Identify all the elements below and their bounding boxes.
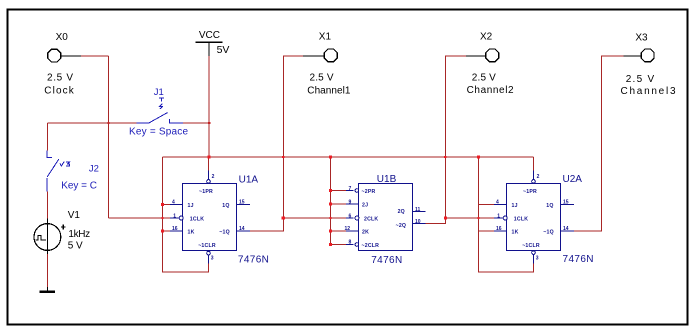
junction clock/J-rail <box>107 122 109 124</box>
svg-text:1CLK: 1CLK <box>514 216 528 222</box>
svg-text:X0: X0 <box>56 32 69 43</box>
wire V1 to ground <box>46 254 48 287</box>
svg-text:2.5 V: 2.5 V <box>310 73 334 84</box>
U2A CLK bubble pin 1 <box>503 216 507 220</box>
U1B CLK bubble <box>355 216 359 220</box>
wire U2A J branch <box>478 204 494 206</box>
svg-text:~1CLR: ~1CLR <box>522 243 540 249</box>
svg-text:1J: 1J <box>188 203 194 209</box>
U1B pin 6 stub <box>346 217 354 219</box>
svg-text:2: 2 <box>212 174 215 180</box>
svg-text:12: 12 <box>345 226 351 232</box>
svg-text:1kHz: 1kHz <box>68 229 90 240</box>
svg-text:1: 1 <box>173 213 176 219</box>
clock source V1 <box>34 210 90 254</box>
probe X3 <box>621 32 676 97</box>
U1B CLR bubble <box>355 243 359 247</box>
U1A pin 2 stub <box>208 171 210 180</box>
U1A pin 3 stub <box>208 255 210 264</box>
svg-text:3: 3 <box>536 255 539 261</box>
wire U1A K branch <box>162 230 170 232</box>
U1B pin 8 stub <box>346 244 354 246</box>
U1A pin 4 stub <box>170 204 183 206</box>
svg-text:15: 15 <box>239 200 245 206</box>
svg-text:7476N: 7476N <box>371 255 402 266</box>
svg-text:Channel3: Channel3 <box>621 86 676 97</box>
svg-text:1K: 1K <box>512 230 519 236</box>
svg-text:2.5 V: 2.5 V <box>626 74 655 85</box>
svg-text:16: 16 <box>496 226 502 232</box>
flip-flop U2A <box>494 171 594 266</box>
svg-text:2.5 V: 2.5 V <box>47 73 73 84</box>
U2A pin 15 stub <box>561 204 574 206</box>
U2A PR bubble <box>532 180 536 184</box>
probe X2 <box>466 32 514 97</box>
svg-text:7: 7 <box>349 186 352 192</box>
wire U2A K branch <box>478 230 494 232</box>
wire J2 to V1 <box>47 191 49 218</box>
junction U1B PR <box>329 189 332 192</box>
svg-text:Channel2: Channel2 <box>467 85 514 96</box>
svg-text:Key = Space: Key = Space <box>129 126 188 137</box>
U1B pin 12 stub <box>346 230 359 232</box>
junction U1B J <box>329 202 332 205</box>
svg-text:16: 16 <box>172 226 178 232</box>
probe X1 <box>303 32 351 97</box>
wire U2A nQ to X3 <box>574 56 624 231</box>
U2A pin 4 stub <box>494 204 507 206</box>
svg-text:VCC: VCC <box>199 30 220 41</box>
svg-text:X2: X2 <box>480 32 493 43</box>
crossing mark X2/rail <box>444 156 446 158</box>
junction dots <box>107 122 480 246</box>
switch J2 <box>47 151 69 192</box>
svg-text:2.5 V: 2.5 V <box>472 73 496 84</box>
svg-text:3: 3 <box>211 256 214 262</box>
U2A pin 1 stub <box>494 217 504 219</box>
junction rail/U1B bus <box>329 155 332 158</box>
U2A pin 2 stub <box>533 171 535 180</box>
U1A PR bubble <box>207 180 211 184</box>
svg-text:1Q: 1Q <box>222 203 229 209</box>
U1B pin 10 stub <box>413 223 426 225</box>
junction VCC/rail <box>208 155 211 158</box>
junction U1B CLR <box>329 243 332 246</box>
wire J2 top rail <box>48 122 137 124</box>
svg-text:2K: 2K <box>362 229 369 235</box>
crossing mark X1/rail <box>282 156 284 158</box>
svg-text:1J: 1J <box>512 203 518 209</box>
crossing mark CLK/U1B bus <box>329 217 331 219</box>
U1B pin 9 stub <box>346 203 359 205</box>
svg-text:2CLK: 2CLK <box>364 216 378 222</box>
wire J2 top lead <box>47 123 49 151</box>
U1A CLK bubble pin 1 <box>179 216 183 220</box>
svg-text:~1PR: ~1PR <box>199 189 213 195</box>
junction X2/U2A CLK <box>444 216 447 219</box>
wire U1B K branch <box>331 230 347 232</box>
ground <box>40 287 56 293</box>
svg-text:~1PR: ~1PR <box>523 189 537 195</box>
svg-text:1Q: 1Q <box>546 203 553 209</box>
svg-text:7476N: 7476N <box>238 255 269 266</box>
svg-text:2J: 2J <box>362 203 368 209</box>
svg-text:4: 4 <box>496 200 499 206</box>
wire U1B J branch <box>331 203 347 205</box>
U1A pin 16 stub <box>170 230 183 232</box>
svg-text:10: 10 <box>415 219 421 225</box>
crossing mark CLK/U2A bus <box>477 217 479 219</box>
crossing mark clock/U1A bus <box>161 217 163 219</box>
wire U1B PR branch <box>331 190 347 192</box>
svg-text:U2A: U2A <box>563 174 583 185</box>
junction J1/VCC <box>208 122 210 124</box>
svg-text:X3: X3 <box>635 32 648 43</box>
svg-text:9: 9 <box>349 199 352 205</box>
wire U2A JK bus <box>479 157 534 272</box>
U1B PR bubble <box>355 189 359 193</box>
svg-text:7476N: 7476N <box>563 254 594 265</box>
svg-text:11: 11 <box>415 207 421 213</box>
svg-text:~1CLR: ~1CLR <box>198 243 216 249</box>
svg-text:~1Q: ~1Q <box>219 230 230 236</box>
wire J1 to VCC <box>183 122 209 124</box>
svg-text:Key = C: Key = C <box>61 180 97 191</box>
wire U1B nQ to X2 <box>426 56 466 224</box>
wire U2A PR stub <box>533 157 535 171</box>
wire clock vertical <box>108 56 110 218</box>
svg-text:Channel1: Channel1 <box>307 86 351 97</box>
wire U1B CLK branch <box>283 217 346 219</box>
wire U1B bus <box>331 157 347 245</box>
switch J1 <box>137 98 183 123</box>
svg-text:2Q: 2Q <box>398 209 405 215</box>
svg-text:6: 6 <box>349 213 352 219</box>
junction U1B K <box>329 229 332 232</box>
U2A pin 3 stub <box>533 255 535 264</box>
svg-text:J1: J1 <box>154 87 164 98</box>
svg-text:4: 4 <box>172 200 175 206</box>
wire VCC rail <box>163 156 534 158</box>
flip-flop U1A <box>170 171 269 266</box>
U1A pin 15 stub <box>237 204 250 206</box>
svg-text:X1: X1 <box>319 32 332 43</box>
wire U1A JK bus <box>163 157 209 272</box>
wires (red) <box>47 56 623 287</box>
svg-text:8: 8 <box>349 240 352 246</box>
svg-text:~2CLR: ~2CLR <box>362 243 380 249</box>
svg-text:14: 14 <box>239 226 245 232</box>
U1A pin 1 stub <box>170 217 180 219</box>
svg-text:V1: V1 <box>68 210 81 221</box>
svg-text:~2Q: ~2Q <box>396 223 407 229</box>
U2A pin 14 stub <box>561 230 574 232</box>
power VCC <box>196 30 230 56</box>
junction U1A K <box>161 229 164 232</box>
wire U1A PR stub <box>208 157 210 171</box>
U1A pin 14 stub <box>237 230 250 232</box>
svg-text:5 V: 5 V <box>68 240 83 251</box>
U1A CLR bubble <box>207 251 211 255</box>
svg-text:U1B: U1B <box>377 174 397 185</box>
svg-text:1CLK: 1CLK <box>190 216 204 222</box>
wire X0 to corner <box>81 55 109 57</box>
wire U2A CLK branch <box>445 217 493 219</box>
wire clock to U1A CLK <box>109 217 170 219</box>
svg-text:1: 1 <box>497 213 500 219</box>
svg-text:~2PR: ~2PR <box>362 189 376 195</box>
svg-text:~1Q: ~1Q <box>543 230 554 236</box>
svg-text:2: 2 <box>537 174 540 180</box>
svg-text:Clock: Clock <box>44 85 75 96</box>
svg-text:J2: J2 <box>89 163 99 174</box>
junction rail/U2A bus <box>477 155 480 158</box>
U1B pin 7 stub <box>346 190 354 192</box>
svg-text:14: 14 <box>563 226 569 232</box>
wire U1A J branch <box>162 204 170 206</box>
U1B pin 11 stub <box>413 211 426 213</box>
U2A CLR bubble <box>532 251 536 255</box>
probe X0 <box>44 32 81 96</box>
wire VCC vertical <box>208 56 210 157</box>
svg-text:U1A: U1A <box>239 175 259 186</box>
junction X1/U1B CLK <box>282 216 285 219</box>
svg-text:1K: 1K <box>188 230 195 236</box>
flip-flop U1B <box>345 174 426 266</box>
junction U1A J <box>161 203 164 206</box>
U2A pin 16 stub <box>494 230 507 232</box>
svg-text:5V: 5V <box>217 44 230 56</box>
wire U1A nQ to X1 <box>250 56 303 231</box>
svg-text:15: 15 <box>563 200 569 206</box>
